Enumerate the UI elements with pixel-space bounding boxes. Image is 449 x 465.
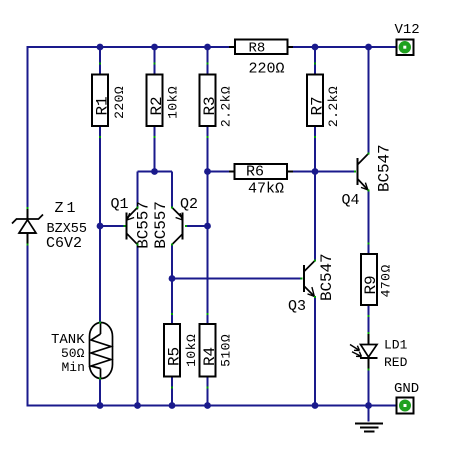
svg-text:RED: RED (384, 355, 408, 370)
svg-text:2.2kΩ: 2.2kΩ (218, 86, 233, 127)
svg-text:Q1: Q1 (111, 196, 129, 213)
svg-text:GND: GND (394, 381, 419, 397)
svg-text:R8: R8 (249, 41, 266, 57)
svg-text:V12: V12 (395, 22, 420, 38)
svg-text:R9: R9 (362, 275, 380, 294)
svg-text:Z: Z (55, 200, 64, 217)
svg-text:470Ω: 470Ω (379, 264, 394, 297)
svg-text:Q2: Q2 (180, 196, 198, 213)
svg-text:BC547: BC547 (318, 253, 336, 301)
svg-text:10kΩ: 10kΩ (165, 86, 180, 119)
svg-text:R4: R4 (201, 347, 219, 366)
svg-text:510Ω: 510Ω (218, 334, 233, 367)
svg-text:220Ω: 220Ω (112, 86, 127, 119)
svg-text:C6V2: C6V2 (46, 235, 82, 252)
svg-text:BC557: BC557 (152, 201, 170, 249)
svg-text:R7: R7 (309, 96, 327, 115)
svg-text:Q4: Q4 (342, 192, 360, 209)
svg-text:220Ω: 220Ω (249, 61, 285, 78)
svg-text:10kΩ: 10kΩ (184, 334, 199, 367)
svg-text:1: 1 (67, 200, 76, 217)
svg-text:Min: Min (62, 360, 85, 375)
svg-text:R5: R5 (166, 347, 184, 366)
svg-text:BC547: BC547 (376, 144, 394, 192)
svg-text:R1: R1 (94, 96, 112, 115)
svg-text:R3: R3 (201, 96, 219, 115)
svg-text:2.2kΩ: 2.2kΩ (326, 86, 341, 127)
svg-text:R2: R2 (148, 96, 166, 115)
svg-text:Q3: Q3 (288, 298, 306, 315)
svg-text:50Ω: 50Ω (61, 346, 85, 361)
svg-text:R6: R6 (246, 164, 264, 181)
svg-text:47kΩ: 47kΩ (248, 181, 284, 198)
svg-text:LD1: LD1 (384, 338, 408, 353)
